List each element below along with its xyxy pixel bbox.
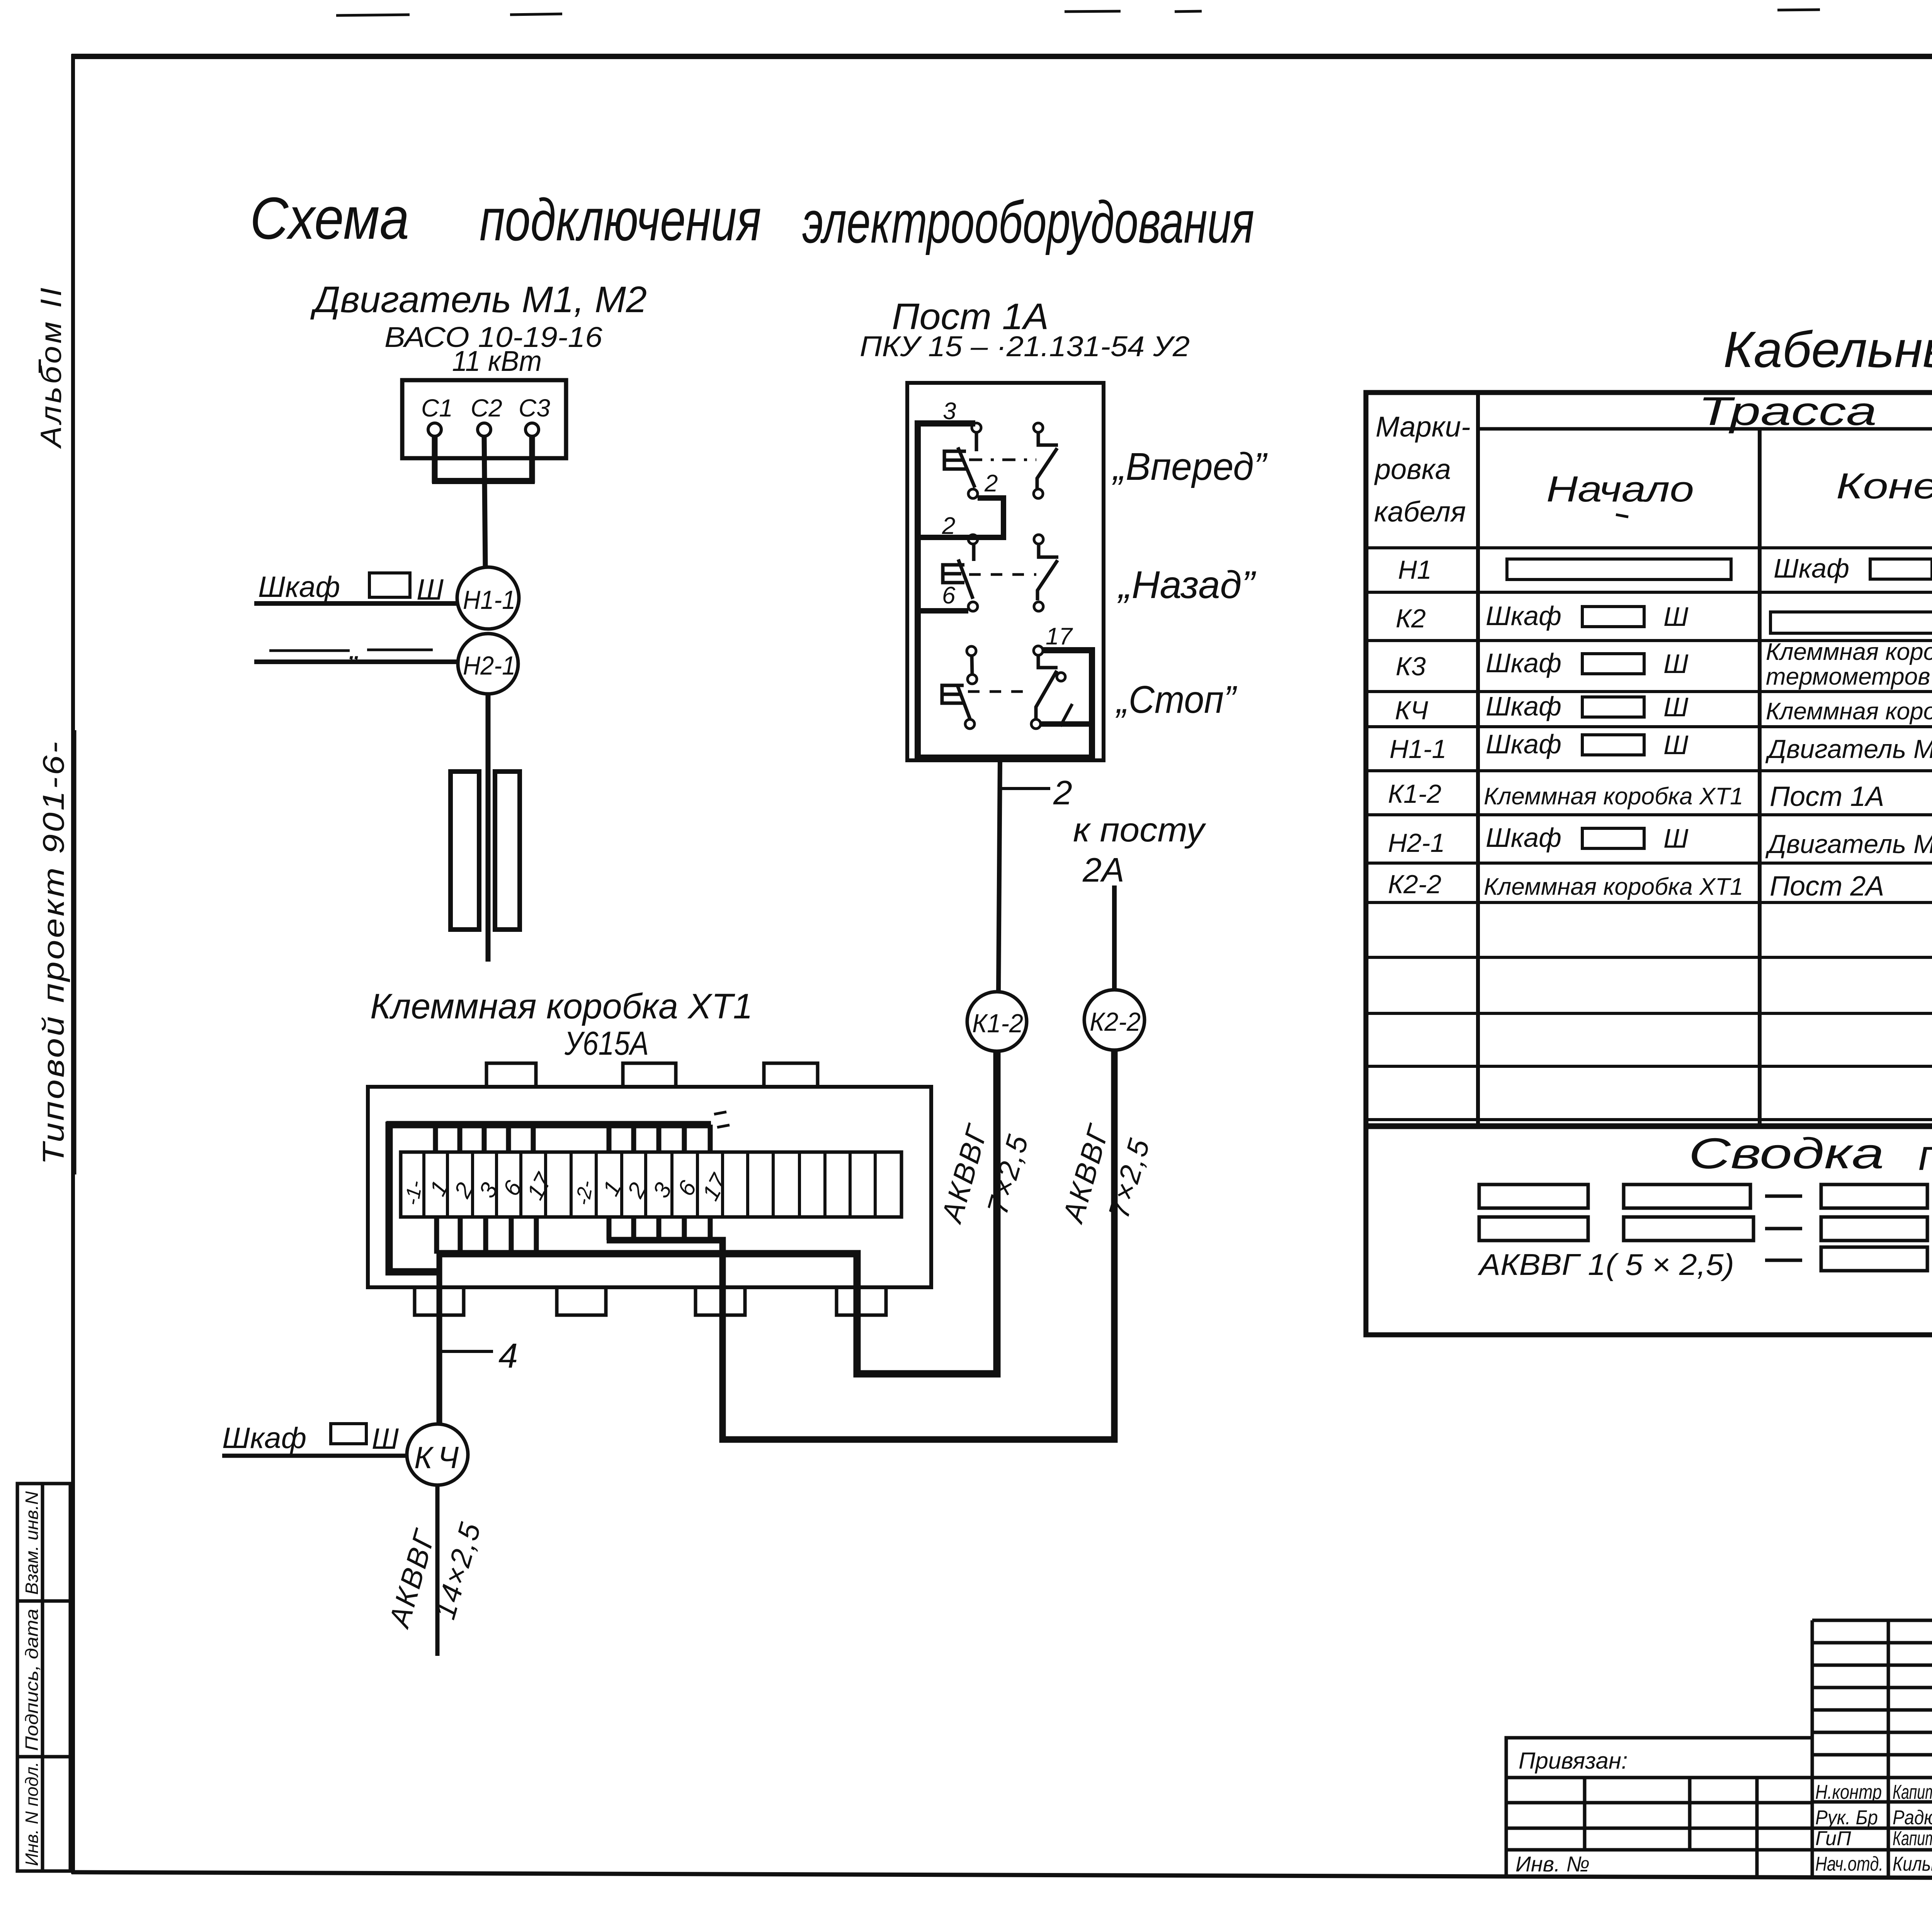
table header lines bbox=[1478, 426, 1932, 462]
main title: Схема подключения электрооборудования bbox=[250, 185, 1254, 255]
wire C1 drop bbox=[432, 436, 438, 483]
title block: signature rows bbox=[1812, 1778, 1932, 1850]
svg-text:Клеммная коробка: Клеммная коробка bbox=[1766, 639, 1932, 665]
svg-text:К2-2: К2-2 bbox=[1388, 870, 1441, 899]
svg-text:ровка: ровка bbox=[1374, 453, 1451, 485]
svg-text:АКВВГ 1( 5 × 2,5): АКВВГ 1( 5 × 2,5) bbox=[1478, 1247, 1734, 1281]
connector stubs group1 above bbox=[435, 1125, 533, 1152]
XT1 top tab 3 bbox=[764, 1063, 818, 1087]
svg-text:Капитульский: Капитульский bbox=[1893, 1827, 1932, 1850]
svg-text:к посту: к посту bbox=[1073, 811, 1206, 849]
svg-text:Взам. инв.N: Взам. инв.N bbox=[22, 1491, 42, 1595]
unit1 right bottom circle bbox=[1034, 489, 1043, 498]
cable marker circle КУ bbox=[407, 1424, 468, 1485]
XT1 top cable bus bbox=[386, 1121, 711, 1129]
svg-text:4: 4 bbox=[498, 1337, 518, 1375]
svg-text:Радюшкин: Радюшкин bbox=[1893, 1807, 1932, 1829]
drawing frame top border bbox=[71, 54, 1932, 59]
XT1 group2 under-bus and run to K2-2 bbox=[607, 1050, 1114, 1440]
terminal C2 bbox=[478, 423, 491, 436]
svg-text:2А: 2А bbox=[1082, 851, 1124, 889]
svodka left row1 rect c bbox=[1821, 1185, 1927, 1208]
svg-text:У615А: У615А bbox=[564, 1025, 649, 1062]
svg-text:Шкаф: Шкаф bbox=[258, 571, 340, 603]
svg-text:Клеммная коробка ХТ1: Клеммная коробка ХТ1 bbox=[1766, 698, 1932, 725]
table row lines bbox=[1366, 548, 1932, 1120]
svg-text:Пост 2А: Пост 2А bbox=[1770, 871, 1884, 902]
cable marker circle H1-1 bbox=[457, 567, 519, 629]
drawing frame bottom border bbox=[71, 1872, 1932, 1880]
wire C2 down to H1-1 bbox=[484, 436, 485, 567]
svg-text:Н1-1: Н1-1 bbox=[463, 585, 515, 615]
unit1 left bottom circle bbox=[968, 489, 978, 498]
cable marker circle H2-1 bbox=[458, 634, 518, 694]
svg-text:Шкаф: Шкаф bbox=[1486, 601, 1561, 631]
svg-text:-1-: -1- bbox=[401, 1179, 427, 1207]
svg-text:ПКУ 15 – ·21.131-54 У2: ПКУ 15 – ·21.131-54 У2 bbox=[860, 330, 1190, 362]
unit1 moving contact slant bbox=[958, 447, 975, 488]
svg-text:-2-: -2- bbox=[571, 1179, 598, 1207]
switch unit 2 (Назад) top circle bbox=[968, 535, 978, 544]
paper top edge line bbox=[336, 8, 1932, 15]
wire post 1A exit down to K1-2 bbox=[998, 760, 1000, 992]
tick for label 2 bbox=[1002, 787, 1050, 790]
svg-text:Кильметов: Кильметов bbox=[1893, 1853, 1932, 1875]
svg-text:К2: К2 bbox=[1396, 604, 1426, 633]
svg-text:Клеммная коробка ХТ1: Клеммная коробка ХТ1 bbox=[1484, 874, 1743, 900]
svg-text:Конец: Конец bbox=[1836, 466, 1932, 506]
drawing frame left border bbox=[71, 54, 75, 1874]
svg-text:2: 2 bbox=[984, 470, 998, 497]
wire terminal 1 to right bus bbox=[1041, 721, 1092, 727]
svodka left row1 rect b bbox=[1624, 1185, 1750, 1208]
XT1 top tab 1 bbox=[486, 1063, 536, 1087]
wire C3 drop bbox=[529, 436, 535, 483]
svg-text:3: 3 bbox=[474, 1178, 503, 1202]
ditto line (upper) for H2-1 bbox=[269, 649, 350, 652]
title block: privyazan box bbox=[1506, 1738, 1812, 1876]
svg-text:К1-2: К1-2 bbox=[1388, 779, 1441, 809]
unit1 right contact top circle bbox=[1034, 423, 1043, 432]
connector stubs group2 above bbox=[609, 1125, 710, 1152]
svg-text:6: 6 bbox=[498, 1176, 527, 1200]
svg-text:Н2-1: Н2-1 bbox=[1388, 828, 1445, 858]
svg-text:Пост 1А: Пост 1А bbox=[1770, 781, 1884, 812]
svg-text:Нач.отд.: Нач.отд. bbox=[1815, 1853, 1883, 1875]
XT1 band cell borders bbox=[424, 1152, 875, 1217]
svg-text:3: 3 bbox=[943, 398, 956, 425]
svodka left row1 rect a bbox=[1479, 1185, 1588, 1208]
connector stubs group2 below bbox=[609, 1217, 710, 1240]
jumper from unit1 to unit2 (terminal 2) bbox=[918, 498, 1003, 537]
unit3 left stem between circles bbox=[972, 656, 972, 675]
svg-text:6: 6 bbox=[942, 582, 956, 609]
unit3 left bottom circle bbox=[965, 719, 975, 729]
svg-text:Капитульский: Капитульский bbox=[1893, 1781, 1932, 1803]
svg-text:АКВВГ: АКВВГ bbox=[935, 1120, 995, 1227]
unit2 mechanical link dashes bbox=[969, 573, 1036, 576]
unit2 stem bbox=[972, 544, 976, 561]
margin bottom stack box bbox=[17, 1484, 70, 1871]
svg-text:Кабельный: Кабельный bbox=[1723, 321, 1932, 378]
svg-text:подключения: подключения bbox=[480, 187, 761, 253]
svg-text:„Вперед”: „Вперед” bbox=[1112, 445, 1268, 488]
pencil dashes at top bus end bbox=[714, 1112, 726, 1114]
signature names bbox=[1893, 1781, 1932, 1875]
wire H2-1 down bbox=[486, 694, 491, 962]
terminal C1 bbox=[428, 423, 441, 436]
svg-text:С3: С3 bbox=[519, 394, 550, 422]
XT1 bottom tab 4 bbox=[837, 1287, 886, 1315]
motor M1/M2 terminal box bbox=[402, 380, 566, 458]
title block: revision mini table bbox=[1812, 1620, 1932, 1876]
cable marker circle K1-2 bbox=[967, 992, 1027, 1051]
svg-text:Шкаф: Шкаф bbox=[1774, 553, 1849, 583]
svg-text:Сводка: Сводка bbox=[1689, 1129, 1884, 1178]
svg-text:Шкаф: Шкаф bbox=[1486, 823, 1561, 853]
svg-text:Ш: Ш bbox=[1663, 649, 1689, 679]
connector stubs group1 below bbox=[437, 1217, 536, 1254]
svg-text:кабеля: кабеля bbox=[1374, 496, 1466, 528]
unit1 right contact hook bbox=[1037, 432, 1058, 488]
switch unit 1 (Вперед) left contact top circle bbox=[972, 423, 981, 432]
svg-text:Ш: Ш bbox=[372, 1423, 399, 1455]
cable K4 drop from XT1 bbox=[437, 1252, 442, 1425]
unit3 right contact hook bbox=[1036, 655, 1058, 719]
svodka left row3 rect bbox=[1821, 1247, 1927, 1271]
table outer border bbox=[1366, 393, 1932, 1335]
unit3 moving contact slant bbox=[957, 685, 970, 719]
svodka left row1 dash bbox=[1765, 1195, 1802, 1198]
svg-text:Двигатель М1: Двигатель М1 bbox=[1765, 734, 1932, 764]
post 1A outer box bbox=[907, 383, 1104, 760]
XT1 bottom tab 1 bbox=[415, 1287, 464, 1315]
XT1 bottom tab 3 bbox=[696, 1287, 745, 1315]
svodka left row2 rect b bbox=[1624, 1217, 1753, 1241]
svg-text:Двигатель М1, М2: Двигатель М1, М2 bbox=[310, 279, 647, 320]
svg-text:„Стоп”: „Стоп” bbox=[1115, 678, 1237, 721]
svg-text:Ш: Ш bbox=[1663, 602, 1689, 632]
post 1A inner wiring: left bus bbox=[918, 423, 1092, 758]
XT1 top tab 2 bbox=[623, 1063, 676, 1087]
cable marker circle K2-2 bbox=[1084, 990, 1145, 1050]
svg-text:Рук. Бр: Рук. Бр bbox=[1815, 1807, 1878, 1829]
svg-text:Шкаф: Шкаф bbox=[1486, 729, 1561, 759]
margin label: Альбом II bbox=[35, 285, 68, 449]
XT1 terminal strip band bbox=[401, 1152, 901, 1217]
table column lines bbox=[1478, 393, 1932, 1126]
unit3 actuator chevron bbox=[942, 685, 964, 703]
unit2 moving contact slant bbox=[958, 559, 973, 599]
unit2 right contact hook bbox=[1037, 544, 1058, 600]
unit1 actuator chevron bbox=[944, 451, 966, 469]
wire shkaf to H2-1 bbox=[254, 659, 458, 664]
terminal C3 bbox=[526, 423, 539, 436]
svodka left row2 dash bbox=[1765, 1227, 1802, 1230]
signature role labels bbox=[1815, 1781, 1883, 1875]
XT1 bottom tab 2 bbox=[557, 1287, 606, 1315]
unit2 right top circle bbox=[1034, 535, 1043, 544]
svg-text:17: 17 bbox=[522, 1168, 557, 1204]
unit3 left middle circle bbox=[968, 675, 977, 684]
svg-text:Ш: Ш bbox=[1663, 730, 1689, 760]
svg-text:17: 17 bbox=[1046, 623, 1073, 650]
svg-text:Ш: Ш bbox=[1663, 823, 1689, 853]
svg-text:Шкаф: Шкаф bbox=[1486, 691, 1561, 721]
duct rectangle left bbox=[451, 772, 479, 930]
svodka left row2 rect c bbox=[1821, 1217, 1927, 1241]
svg-text:2: 2 bbox=[1053, 773, 1072, 812]
svodka left row2 rect a bbox=[1479, 1217, 1588, 1241]
unit3 mechanical link dashes bbox=[968, 690, 1031, 693]
svg-text:17: 17 bbox=[697, 1169, 733, 1205]
svg-text:Клеммная коробка ХТ1: Клеммная коробка ХТ1 bbox=[1484, 783, 1743, 810]
table thick line under rows bbox=[1366, 1123, 1932, 1129]
svg-text:11 кВт: 11 кВт bbox=[452, 345, 542, 377]
margin label: Типовой проект 901-6- bbox=[36, 730, 75, 1174]
svodka left row3 dash bbox=[1765, 1259, 1802, 1262]
svg-text:„Назад”: „Назад” bbox=[1117, 563, 1257, 607]
svg-text:Шкаф: Шкаф bbox=[222, 1422, 306, 1455]
tick for cable count 4 bbox=[440, 1350, 493, 1353]
svg-text:Шкаф: Шкаф bbox=[1486, 648, 1561, 678]
wire shkaf to KU bbox=[222, 1454, 408, 1458]
svg-text:Н2-1: Н2-1 bbox=[463, 651, 515, 680]
wire C1-C3 junction bar bbox=[432, 478, 535, 484]
svg-text:ГиП: ГиП bbox=[1815, 1827, 1851, 1850]
svg-text:Схема: Схема bbox=[250, 185, 409, 252]
svg-text:К3: К3 bbox=[1396, 652, 1426, 681]
svg-text:проводов: проводов bbox=[1918, 1131, 1932, 1179]
svg-text:Трасса: Трасса bbox=[1698, 389, 1877, 434]
label 1 (slanted) bbox=[1060, 704, 1072, 726]
svg-text:Двигатель М2: Двигатель М2 bbox=[1765, 829, 1932, 859]
unit2 actuator chevron bbox=[943, 565, 964, 583]
svg-text:К1-2: К1-2 bbox=[972, 1009, 1023, 1038]
XT1 bottom cable bus stepping to K1-2 bbox=[437, 1052, 997, 1374]
switch unit 3 (Стоп) left top circle bbox=[967, 646, 976, 656]
svg-text:С2: С2 bbox=[471, 394, 502, 422]
svg-text:КЧ: КЧ bbox=[414, 1440, 464, 1475]
svg-text:КЧ: КЧ bbox=[1395, 696, 1428, 725]
check mark under Начало header bbox=[1616, 515, 1628, 517]
svg-text:Клеммная коробка ХТ1: Клеммная коробка ХТ1 bbox=[370, 987, 753, 1026]
unit2 right bottom circle bbox=[1034, 602, 1043, 611]
unit3 right bottom circle bbox=[1031, 719, 1041, 729]
svg-text:Ш: Ш bbox=[1663, 692, 1689, 722]
wire unit2 bottom to left bus bbox=[918, 608, 968, 614]
svg-text:Инв. №: Инв. № bbox=[1515, 1852, 1590, 1876]
svg-text:электрооборудования: электрооборудования bbox=[802, 189, 1254, 255]
unit1 left stem bbox=[975, 432, 978, 451]
svg-text:Марки-: Марки- bbox=[1376, 411, 1471, 443]
wire shkaf to H1-1 bbox=[254, 601, 457, 606]
svg-text:Инв. N подл.: Инв. N подл. bbox=[22, 1762, 42, 1866]
cable KU drop below bbox=[435, 1485, 440, 1656]
unit2 left bottom circle bbox=[968, 602, 978, 611]
svg-text:С1: С1 bbox=[421, 394, 453, 422]
svg-text:Н.контр: Н.контр bbox=[1815, 1781, 1882, 1803]
svg-text:Привязан:: Привязан: bbox=[1519, 1748, 1628, 1774]
svg-text:Начало: Начало bbox=[1546, 469, 1694, 509]
svg-text:К2-2: К2-2 bbox=[1090, 1007, 1141, 1037]
unit3 right top circle bbox=[1034, 646, 1043, 655]
XT1 left loop down bbox=[389, 1122, 439, 1272]
svg-text:термометров ХТ: термометров ХТ bbox=[1766, 663, 1932, 690]
rectangle symbol (H1-1 shkaf) bbox=[369, 573, 410, 597]
duct rectangle right bbox=[495, 772, 520, 930]
unit3 side circle bbox=[1057, 673, 1065, 681]
svg-text:Н1: Н1 bbox=[1398, 555, 1432, 585]
svg-text:Подпись, дата: Подпись, дата bbox=[22, 1609, 42, 1751]
svg-text:Н1-1: Н1-1 bbox=[1389, 734, 1446, 764]
svg-text:Типовой проект 901-6-: Типовой проект 901-6- bbox=[36, 740, 70, 1165]
svg-text:2: 2 bbox=[942, 513, 955, 539]
rectangle symbol (KU shkaf) bbox=[331, 1424, 366, 1444]
svg-text:АКВВГ: АКВВГ bbox=[383, 1525, 442, 1632]
unit1 mechanical link dashes bbox=[969, 459, 1036, 461]
wire to post 2A down to K2-2 bbox=[1112, 885, 1117, 989]
XT1 outer box bbox=[368, 1087, 931, 1287]
